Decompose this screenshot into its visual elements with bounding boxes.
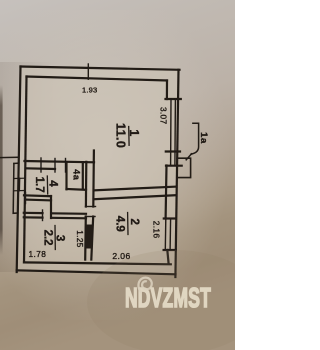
wall V1 right face upper: [92, 151, 95, 207]
wall A dim tick: [40, 158, 42, 172]
room4 fraction line: [46, 176, 48, 194]
left side shading: [0, 62, 58, 272]
wall A door jamb left: [54, 159, 56, 173]
closet 4a left wall: [65, 162, 67, 189]
window W1 pane line 1: [170, 99, 172, 166]
window W1 pane line 2: [174, 99, 177, 166]
wall B1 lower face: [26, 199, 52, 202]
window W2 pane line 2: [169, 219, 172, 251]
balcony door swing: [186, 154, 191, 160]
svg-text:1a: 1a: [198, 132, 209, 144]
balcony 1a leader: [191, 123, 199, 154]
closet 4a bottom wall: [67, 188, 87, 191]
wall right outer: [175, 70, 178, 277]
svg-text:1.7: 1.7: [33, 177, 45, 193]
wall V1 left face upper: [85, 162, 88, 207]
wall top outer: [21, 67, 180, 70]
wall left inner: [24, 77, 27, 263]
neighbour wall line: [0, 156, 19, 158]
balcony slab outline: [177, 158, 190, 177]
wall B2 lower face right: [52, 217, 86, 220]
wall B1 upper face: [24, 194, 51, 197]
kitchen door jamb top: [86, 206, 96, 208]
dark photo left edge band: [0, 85, 3, 255]
wall B1 tick: [25, 193, 27, 204]
svg-text:3.07: 3.07: [158, 107, 168, 124]
svg-text:2: 2: [128, 218, 140, 224]
svg-text:2.16: 2.16: [152, 221, 162, 239]
wall bottom inner: [24, 262, 171, 264]
wall right inner segment upper: [166, 81, 168, 100]
wall right inner segment lower: [167, 250, 168, 263]
room1 fraction line: [128, 127, 130, 146]
wall V1 right face lower: [91, 217, 93, 260]
window W2 tick top: [164, 217, 176, 219]
svg-text:1: 1: [127, 129, 141, 136]
closet 4a right wall: [82, 162, 84, 189]
wall V1 left face lower: [84, 217, 87, 260]
svg-text:2.2: 2.2: [42, 230, 54, 246]
watermark NDVZMST: [125, 278, 211, 313]
room3 fraction line: [54, 226, 56, 250]
svg-text:4a: 4a: [71, 169, 81, 180]
shaft fill: [85, 225, 92, 249]
wall B2 upper face right: [52, 212, 86, 215]
wall top inner: [27, 77, 168, 81]
exterior corridor tick top: [14, 162, 18, 164]
wall B2 lower face left: [24, 216, 43, 219]
wall A lower face: [27, 167, 56, 170]
bath door jamb left: [42, 210, 44, 221]
svg-text:1.78: 1.78: [29, 249, 47, 259]
wall right inner segment middle: [165, 166, 168, 219]
svg-text:3: 3: [54, 235, 66, 241]
balcony door tick: [166, 165, 182, 167]
watermark spiral: [138, 278, 151, 293]
svg-text:4: 4: [47, 180, 59, 187]
entrance door jamb bottom: [14, 190, 24, 192]
dark patch behind watermark: [87, 250, 263, 350]
wall left outer: [17, 67, 21, 273]
window W2 tick bottom: [164, 249, 176, 251]
svg-text:1.93: 1.93: [82, 86, 97, 95]
svg-text:11.0: 11.0: [113, 123, 127, 148]
room2 fraction line: [127, 213, 129, 235]
entrance door leaf: [18, 178, 20, 190]
top wall dim tick: [87, 64, 89, 79]
svg-text:4.9: 4.9: [114, 216, 126, 232]
wall B2 upper face left: [24, 212, 43, 215]
wall C upper face: [94, 187, 176, 191]
photo background: [0, 0, 235, 350]
exterior corridor line: [12, 164, 15, 214]
entrance door jamb top: [15, 177, 25, 179]
kitchen door jamb bottom: [85, 216, 95, 218]
window W2 pane line 1: [164, 219, 167, 251]
wall bottom outer: [17, 270, 176, 274]
window W1 tick top: [166, 98, 181, 100]
svg-text:1.25: 1.25: [75, 230, 84, 248]
wall C lower face: [94, 195, 176, 199]
plan interior paper: [17, 67, 179, 275]
exterior corridor tick bottom: [13, 212, 17, 214]
wall A door jamb right: [65, 159, 67, 173]
paper highlight under plan: [0, 10, 235, 320]
wall A upper face: [25, 161, 95, 162]
window W1 tick bottom: [166, 150, 180, 152]
wall B connector: [50, 196, 52, 218]
